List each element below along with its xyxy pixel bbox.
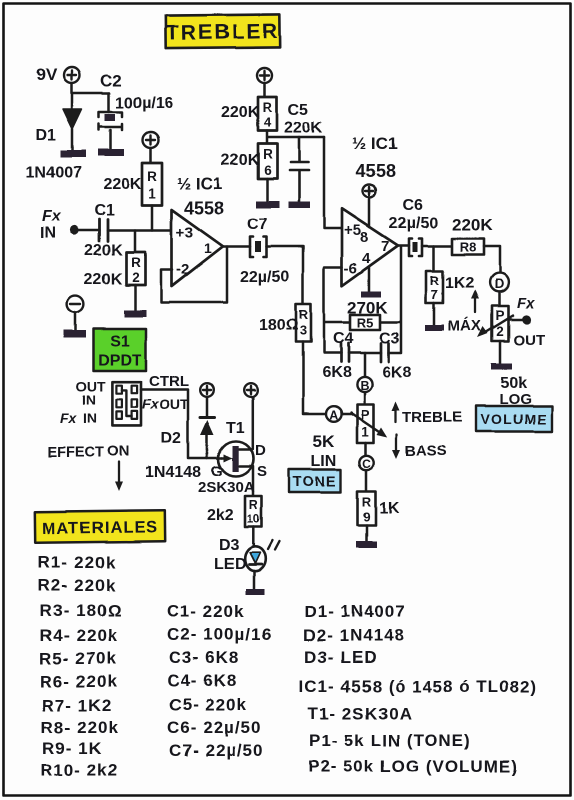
potentiometer P1 [357, 404, 374, 443]
U1B output wire [398, 244, 409, 247]
resistor R2 [126, 230, 145, 285]
wire C7 to R3 [267, 247, 304, 305]
svg-text:A: A [329, 409, 338, 423]
svg-text:Fx: Fx [60, 410, 78, 426]
svg-text:4558: 4558 [184, 198, 224, 218]
Fx OUT dot and wire [509, 315, 532, 324]
resistor R6 [258, 144, 277, 179]
P2 wiper arrow [478, 316, 514, 338]
title box TREBLER [166, 14, 280, 48]
svg-text:270K: 270K [347, 298, 388, 317]
svg-text:G: G [211, 463, 223, 480]
wire pin8 [368, 198, 371, 228]
diode D2 [200, 397, 215, 458]
ground under R2 [124, 285, 146, 317]
svg-text:EFFECT: EFFECT [47, 445, 104, 461]
potentiometer P2 [492, 306, 509, 341]
svg-text:R: R [362, 494, 372, 509]
input node dot [69, 225, 78, 234]
svg-text:R: R [430, 273, 440, 288]
svg-text:Fx: Fx [142, 396, 160, 412]
P2 value 50k LOG [499, 375, 532, 408]
svg-text:TREBLE: TREBLE [402, 409, 462, 426]
svg-text:7: 7 [431, 287, 438, 302]
svg-text:6K8: 6K8 [382, 364, 411, 381]
svg-text:LED: LED [214, 556, 246, 573]
wire +V to T1 drain [239, 398, 253, 450]
BASS arrow [393, 434, 401, 459]
svg-text:MÁX: MÁX [448, 318, 481, 335]
wire 9V node to rail [72, 83, 110, 93]
svg-text:-2: -2 [176, 261, 189, 278]
svg-text:P2- 50k LOG (VOLUME): P2- 50k LOG (VOLUME) [308, 757, 518, 776]
svg-text:-6: -6 [344, 260, 357, 277]
resistor R3 [296, 304, 311, 342]
svg-text:TONE: TONE [293, 475, 337, 491]
S1 DPDT green box [94, 329, 147, 371]
wire A to P1 wiper [342, 413, 352, 415]
svg-text:OUT: OUT [159, 396, 189, 412]
svg-text:220K: 220K [103, 176, 142, 193]
P1 value 5K LIN [311, 432, 337, 470]
wire node to R1 [149, 148, 152, 163]
capacitor C5 [288, 138, 310, 209]
svg-text:50k: 50k [500, 375, 527, 392]
svg-text:R7- 1K2: R7- 1K2 [42, 696, 112, 715]
svg-text:IN: IN [83, 410, 97, 426]
svg-text:R: R [249, 498, 258, 512]
svg-text:4558: 4558 [356, 161, 396, 181]
svg-text:220K: 220K [84, 271, 123, 288]
wire B to P1 [363, 392, 366, 404]
svg-text:P1- 5k LIN (TONE): P1- 5k LIN (TONE) [309, 731, 471, 750]
parts list column C [167, 602, 272, 760]
svg-text:LIN: LIN [311, 453, 337, 470]
wire node to R4 [263, 83, 266, 97]
svg-text:D1- 1N4007: D1- 1N4007 [304, 602, 406, 621]
capacitor C7 (electrolytic) [250, 237, 267, 258]
wire R3 to node A [303, 342, 326, 414]
svg-text:C3- 6K8: C3- 6K8 [169, 648, 239, 667]
svg-text:4: 4 [362, 250, 371, 267]
resistor R8 [452, 239, 484, 255]
node A circle [326, 406, 342, 422]
Fx IN label [40, 208, 62, 242]
svg-text:R: R [131, 255, 141, 270]
svg-text:C4- 6K8: C4- 6K8 [167, 671, 237, 690]
svg-text:C6- 22µ/50: C6- 22µ/50 [167, 718, 261, 737]
svg-text:5K: 5K [313, 432, 335, 451]
svg-text:D3- LED: D3- LED [304, 648, 377, 667]
LED D3 [245, 527, 279, 571]
svg-text:220K: 220K [221, 104, 260, 121]
MATERIALES box [35, 510, 165, 543]
VOLUME box [476, 406, 552, 432]
svg-text:S1: S1 [110, 333, 130, 350]
svg-text:T1: T1 [226, 420, 245, 437]
wire R4 to R6 and divider rail [267, 131, 324, 144]
svg-text:2: 2 [132, 270, 140, 285]
svg-text:OUT: OUT [513, 332, 545, 349]
svg-text:100µ/16: 100µ/16 [115, 95, 173, 112]
ground under negative node [64, 313, 86, 338]
svg-text:3: 3 [300, 323, 307, 338]
svg-text:D2: D2 [161, 430, 182, 447]
U1A feedback wire [161, 247, 227, 303]
svg-text:DPDT: DPDT [98, 352, 142, 369]
resistor R5 [350, 315, 380, 331]
+V node above D2 [200, 383, 214, 397]
wire divider to +5 input [324, 138, 342, 229]
svg-text:R4- 220k: R4- 220k [40, 626, 118, 645]
svg-text:R: R [147, 169, 157, 184]
svg-text:C2: C2 [100, 71, 122, 90]
svg-text:R9- 1K: R9- 1K [42, 739, 102, 758]
+V node above R4 [257, 68, 272, 83]
svg-text:S: S [257, 463, 267, 480]
capacitor C2 (electrolytic) [98, 93, 124, 156]
svg-text:C7- 22µ/50: C7- 22µ/50 [169, 741, 263, 760]
svg-text:BASS: BASS [405, 443, 447, 460]
svg-text:R8: R8 [460, 240, 477, 255]
svg-text:D1: D1 [36, 127, 57, 144]
resistor R10 [245, 496, 262, 527]
parts list column R [38, 553, 122, 780]
svg-text:2SK30A: 2SK30A [198, 479, 255, 496]
U1A output wire [223, 245, 251, 248]
svg-text:ON: ON [107, 443, 130, 460]
node D circle [490, 273, 509, 292]
ground under LED [246, 571, 265, 595]
svg-text:IN: IN [82, 392, 96, 408]
svg-text:R8- 220k: R8- 220k [41, 718, 119, 737]
op-amp U1B triangle [342, 209, 398, 286]
svg-text:R5: R5 [357, 315, 374, 330]
capacitor C4 [341, 343, 349, 362]
svg-text:R1- 220k: R1- 220k [38, 553, 116, 572]
svg-text:½ IC1: ½ IC1 [177, 174, 222, 193]
svg-text:R6- 220k: R6- 220k [40, 672, 118, 691]
TONE box [289, 470, 341, 493]
parts list column D/IC [299, 602, 538, 776]
svg-text:R5- 270k: R5- 270k [39, 649, 117, 668]
svg-text:220K: 220K [452, 215, 493, 234]
wire D to P2 [498, 292, 501, 306]
svg-text:220K: 220K [84, 242, 123, 259]
Fx OUT labels [513, 295, 545, 349]
svg-text:22µ/50: 22µ/50 [240, 269, 289, 286]
svg-text:CTRL: CTRL [149, 373, 189, 390]
svg-text:R2- 220k: R2- 220k [38, 576, 116, 595]
svg-text:+3: +3 [176, 224, 193, 241]
svg-text:R3- 180Ω: R3- 180Ω [40, 601, 122, 620]
svg-text:220K: 220K [284, 120, 323, 137]
svg-text:180Ω: 180Ω [259, 317, 299, 334]
wire input to C1 [74, 229, 99, 232]
svg-text:C6: C6 [403, 197, 424, 214]
svg-text:C5- 220k: C5- 220k [169, 695, 247, 714]
svg-text:1: 1 [148, 186, 156, 201]
svg-text:MATERIALES: MATERIALES [42, 518, 158, 537]
+9V supply node [64, 67, 80, 83]
MAX arrow [472, 290, 480, 313]
wire C6 to R8 [422, 245, 452, 248]
svg-text:22µ/50: 22µ/50 [389, 215, 438, 232]
TREBLE arrow [392, 402, 400, 422]
svg-text:1: 1 [204, 240, 212, 256]
svg-text:Fx: Fx [42, 208, 62, 225]
svg-text:D2- 1N4148: D2- 1N4148 [303, 626, 405, 645]
resistor R4 [258, 97, 277, 131]
svg-text:2k2: 2k2 [207, 507, 234, 524]
capacitor C1 [99, 219, 108, 241]
resistor R7 [426, 246, 443, 303]
effect-on arrow [115, 462, 123, 491]
ground pin 4 [361, 267, 381, 297]
wire R1 to input rail [151, 205, 154, 230]
svg-text:R10- 2k2: R10- 2k2 [40, 761, 118, 780]
+V node pin 8 [363, 185, 376, 198]
svg-text:6: 6 [264, 163, 272, 178]
U1B feedback network wires [324, 247, 401, 353]
svg-text:D: D [255, 442, 266, 459]
svg-text:1N4148: 1N4148 [145, 464, 201, 481]
svg-text:8: 8 [360, 229, 368, 246]
svg-text:+5: +5 [344, 222, 361, 239]
svg-text:1K2: 1K2 [445, 275, 474, 292]
svg-text:IN: IN [40, 225, 56, 242]
capacitor C6 (electrolytic) [409, 239, 422, 257]
svg-text:9V: 9V [36, 65, 57, 84]
+V node above T1 [244, 384, 258, 398]
node B [357, 353, 372, 393]
svg-text:1: 1 [361, 424, 369, 439]
svg-text:C1: C1 [94, 202, 115, 219]
EFFECT ON labels [47, 443, 130, 461]
svg-text:1K: 1K [379, 500, 400, 517]
ground under R6 [256, 179, 279, 208]
capacitor C3 [381, 343, 389, 362]
svg-text:C5: C5 [288, 102, 309, 119]
svg-text:C3: C3 [379, 330, 400, 347]
transistor T1 (JFET) [219, 441, 254, 496]
svg-text:C4: C4 [333, 330, 354, 347]
svg-text:7: 7 [381, 238, 389, 255]
svg-text:220K: 220K [221, 152, 260, 169]
negative supply node [67, 296, 84, 313]
+V node above R1 [143, 132, 159, 148]
svg-text:10: 10 [247, 514, 260, 526]
svg-text:R: R [263, 147, 273, 162]
node C circle [359, 443, 373, 471]
svg-text:D: D [495, 277, 505, 292]
svg-text:R: R [299, 307, 309, 322]
svg-text:½ IC1: ½ IC1 [352, 134, 397, 153]
svg-text:C7: C7 [247, 216, 268, 233]
svg-text:1N4007: 1N4007 [26, 164, 82, 181]
svg-text:R: R [263, 100, 273, 115]
svg-text:Fx: Fx [517, 295, 535, 312]
svg-text:TREBLER: TREBLER [166, 20, 280, 45]
ground under R9 [356, 525, 377, 548]
svg-text:9: 9 [363, 509, 370, 524]
CTRL wire to T1 gate [141, 390, 222, 459]
ground under R7 [425, 303, 444, 331]
ground under P2 [491, 341, 512, 370]
wire C to R9 [365, 470, 368, 491]
svg-text:4: 4 [264, 115, 272, 130]
svg-text:C1- 220k: C1- 220k [167, 602, 245, 621]
diode D1 [61, 93, 86, 157]
svg-text:C2- 100µ/16: C2- 100µ/16 [167, 625, 272, 644]
svg-text:T1- 2SK30A: T1- 2SK30A [308, 704, 412, 723]
resistor R9 [358, 491, 376, 525]
svg-text:VOLUME: VOLUME [480, 411, 547, 427]
switch S1 body [112, 382, 141, 426]
svg-text:6K8: 6K8 [322, 364, 351, 381]
svg-text:IC1- 4558 (ó 1458 ó TL082): IC1- 4558 (ó 1458 ó TL082) [299, 677, 538, 696]
wire R8 to D node [484, 246, 500, 273]
Fx OUT label [142, 396, 189, 412]
P1 wiper arrow [351, 413, 387, 438]
svg-text:D3: D3 [219, 537, 240, 554]
wire C1 to op-amp +3 [108, 229, 173, 232]
switch labels OUT IN FxIN [60, 378, 106, 426]
op-amp U1A triangle [172, 210, 224, 287]
resistor R1 [142, 163, 162, 205]
